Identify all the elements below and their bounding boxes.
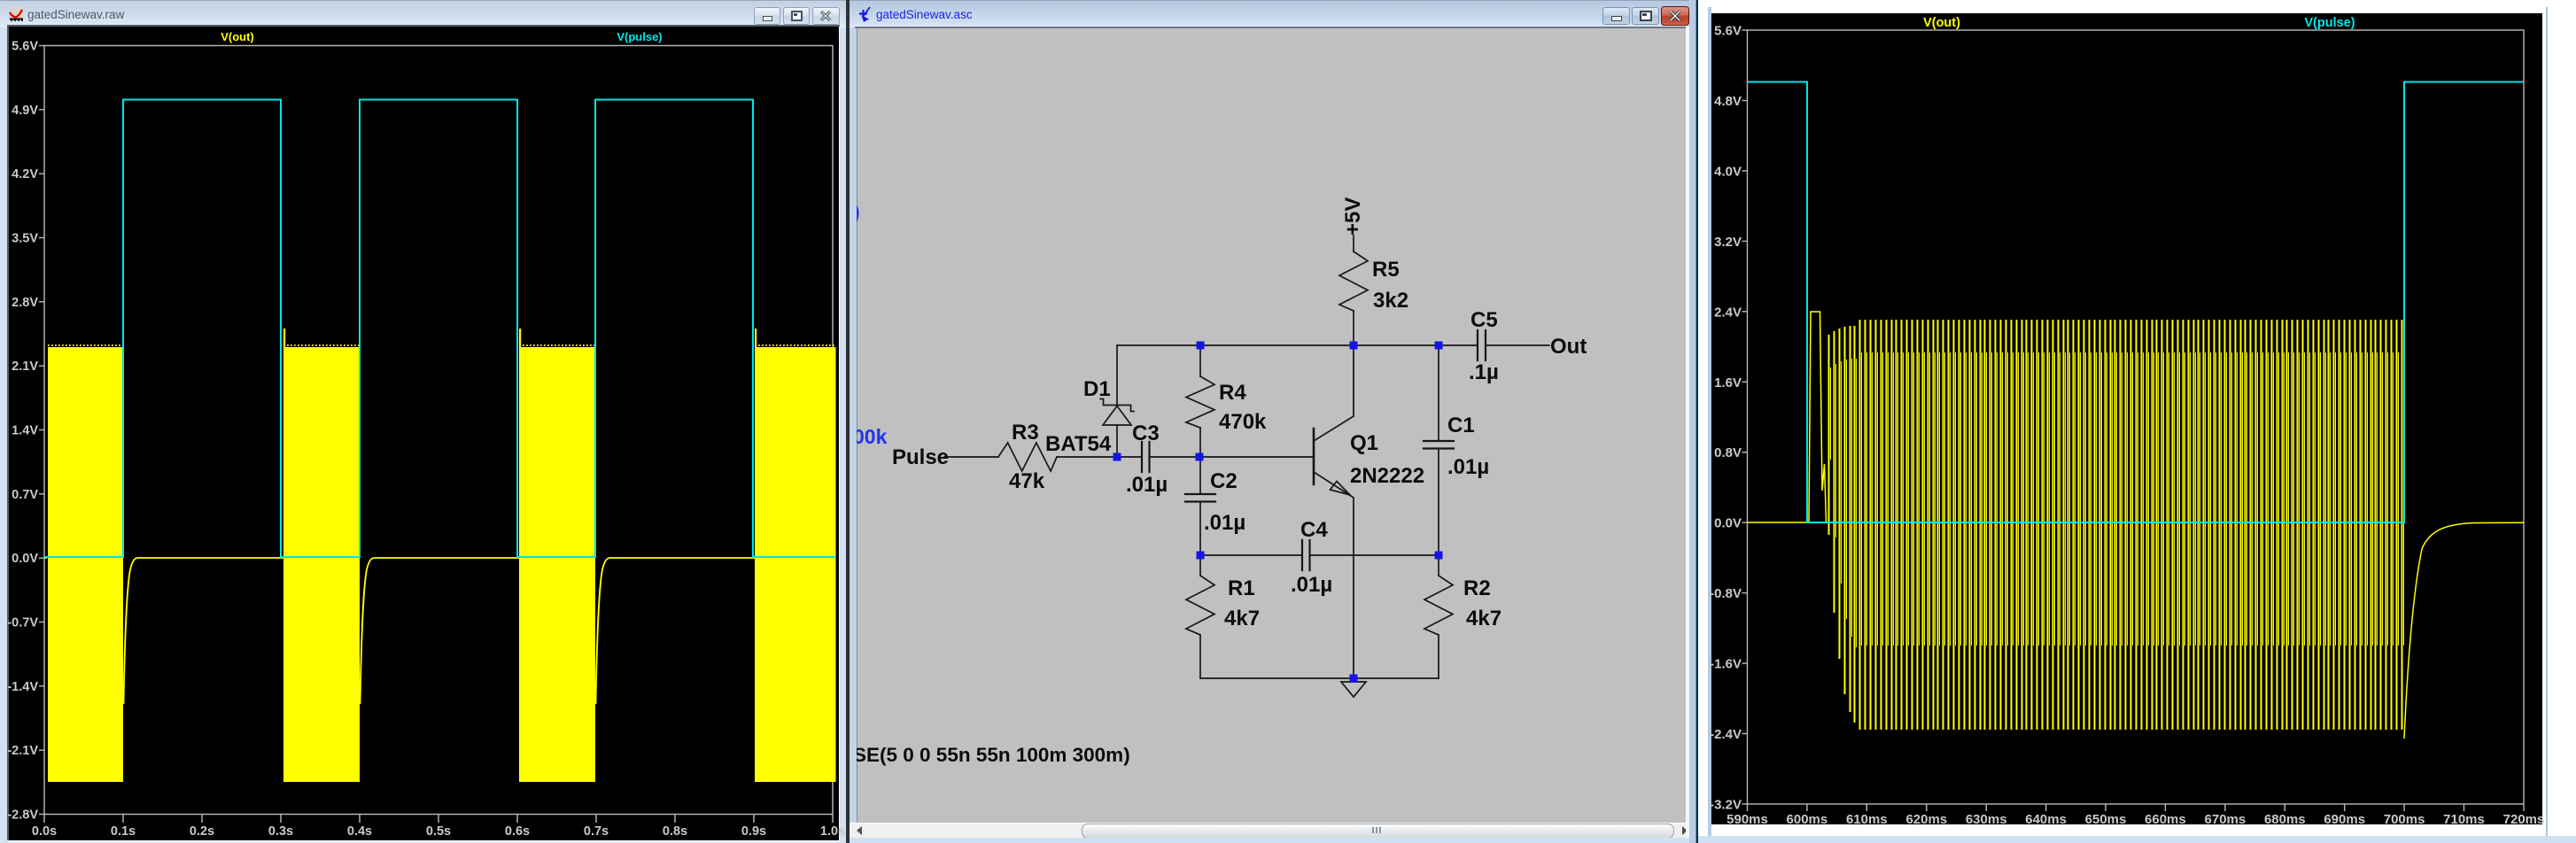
svg-text:R3: R3 — [1012, 421, 1039, 445]
svg-text:0.0V: 0.0V — [1714, 516, 1742, 531]
node Pulse input wire — [944, 456, 998, 458]
transistor Q1 collector — [1314, 345, 1354, 441]
titlebar middle window — [850, 0, 1696, 27]
resistor R2 — [1438, 555, 1439, 576]
ground symbol — [1341, 682, 1366, 697]
canvas sunken edge — [855, 27, 1696, 28]
svg-text:620ms: 620ms — [1905, 812, 1947, 827]
junction nodes (blue squares) — [1113, 342, 1443, 683]
scrollbar thumb grip — [1372, 827, 1374, 833]
titlebar left window — [0, 0, 848, 27]
svg-text:V(pulse): V(pulse) — [617, 30, 662, 43]
trace V(out) right: flat, startup bump, oscillation, decay — [1748, 312, 1827, 522]
svg-text:R5: R5 — [1372, 258, 1400, 282]
svg-text:-0.8V: -0.8V — [1710, 586, 1742, 601]
svg-text:47k: 47k — [1009, 469, 1045, 493]
minimize button (mid) — [1602, 7, 1630, 25]
window: gatedSinewav.asc (schematic) — [848, 0, 1698, 843]
svg-text:R2: R2 — [1463, 576, 1491, 600]
capacitor C2 — [1199, 457, 1201, 494]
wire C3 to base junction — [1150, 456, 1200, 458]
svg-text:4.9V: 4.9V — [12, 104, 38, 118]
wire R3 to junction — [1057, 456, 1142, 458]
svg-text:0.7V: 0.7V — [12, 488, 38, 502]
svg-text:.1µ: .1µ — [1469, 360, 1499, 384]
svg-text:0.3s: 0.3s — [268, 824, 293, 839]
wire C5 to Out — [1486, 344, 1549, 346]
svg-text:4k7: 4k7 — [1466, 607, 1501, 630]
svg-text:R4: R4 — [1219, 381, 1246, 405]
svg-text:-2.4V: -2.4V — [1710, 727, 1742, 742]
right waveform panel background — [1698, 0, 2576, 843]
svg-text:470k: 470k — [1219, 410, 1267, 434]
svg-text:V(out): V(out) — [1923, 16, 1960, 30]
resistor R4 — [1199, 345, 1201, 376]
svg-text:BAT54: BAT54 — [1045, 432, 1112, 456]
svg-text:-2.8V: -2.8V — [7, 808, 38, 823]
trace V(pulse) right — [1748, 82, 2525, 523]
svg-text:.01µ: .01µ — [1291, 573, 1332, 597]
svg-text:): ) — [857, 200, 860, 223]
window: gatedSinewav.raw (waveform viewer) — [0, 0, 848, 843]
svg-text:Out: Out — [1550, 335, 1587, 359]
svg-text:0.2s: 0.2s — [190, 824, 214, 839]
svg-text:.01µ: .01µ — [1204, 511, 1245, 535]
trace V(pulse) left — [44, 100, 835, 558]
component labels — [853, 197, 1587, 766]
minimize button — [754, 7, 780, 25]
svg-text:R1: R1 — [1228, 576, 1255, 600]
svg-text:680ms: 680ms — [2264, 812, 2306, 827]
left plot y-axis labels — [7, 40, 38, 823]
maximize button — [783, 7, 810, 25]
transistor Q1 base bar — [1313, 429, 1315, 484]
scrollbar thumb — [1082, 824, 1674, 839]
svg-text:4.2V: 4.2V — [12, 167, 38, 182]
left plot axis box — [44, 46, 833, 815]
bottom border — [850, 838, 1696, 843]
title text blue — [876, 8, 973, 21]
svg-text:4.8V: 4.8V — [1714, 94, 1742, 109]
right panel black area — [1711, 13, 2543, 824]
svg-text:720ms: 720ms — [2503, 812, 2545, 827]
svg-text:00k: 00k — [857, 425, 888, 448]
close button — [812, 7, 840, 25]
svg-text:D1: D1 — [1083, 377, 1111, 401]
svg-text:690ms: 690ms — [2324, 812, 2365, 827]
svg-text:0.6s: 0.6s — [505, 824, 530, 839]
svg-text:-2.1V: -2.1V — [7, 744, 38, 758]
svg-text:3.5V: 3.5V — [12, 232, 38, 246]
capacitor C5 — [1478, 330, 1486, 360]
svg-text:5.6V: 5.6V — [1714, 24, 1742, 39]
capacitor C4 — [1302, 540, 1310, 570]
black client area — [9, 27, 839, 840]
svg-text:610ms: 610ms — [1846, 812, 1888, 827]
svg-text:2.1V: 2.1V — [12, 360, 38, 374]
svg-text:0.0s: 0.0s — [32, 824, 57, 839]
left plot x-axis labels — [32, 824, 845, 839]
svg-text:Q1: Q1 — [1350, 431, 1378, 455]
blue directive fragments — [853, 200, 888, 448]
wire lower row left — [1200, 554, 1302, 556]
svg-text:C5: C5 — [1470, 308, 1498, 332]
resistor R5 — [1353, 236, 1354, 251]
trace V(out): startup spikes — [283, 329, 285, 347]
wire ground rail — [1200, 677, 1439, 679]
svg-text:-1.4V: -1.4V — [7, 680, 38, 694]
svg-text:C2: C2 — [1210, 469, 1238, 493]
right plot axis box — [1748, 30, 2525, 804]
svg-text:0.1s: 0.1s — [111, 824, 136, 839]
svg-text:C4: C4 — [1300, 518, 1328, 542]
svg-text:0.0V: 0.0V — [12, 552, 38, 566]
svg-text:3.2V: 3.2V — [1714, 235, 1742, 250]
svg-text:SE(5 0 0 55n 55n 100m 300m): SE(5 0 0 55n 55n 100m 300m) — [857, 744, 1130, 766]
gray schematic canvas — [857, 28, 1687, 823]
svg-text:Pulse: Pulse — [892, 445, 949, 469]
svg-text:0.8V: 0.8V — [1714, 445, 1742, 460]
wire top rail — [1117, 344, 1478, 346]
svg-text:V(out): V(out) — [221, 30, 254, 43]
dark outer border right of schematic window — [1696, 0, 1698, 843]
svg-text:700ms: 700ms — [2384, 812, 2425, 827]
trace V(out): oscillation blocks — [48, 347, 123, 782]
close button red (mid) — [1661, 6, 1689, 26]
svg-text:590ms: 590ms — [1726, 812, 1768, 827]
resistor R1 — [1199, 555, 1201, 576]
right plot y-axis labels — [1710, 24, 1742, 813]
titlebar icon (blue schematic probe) — [859, 6, 877, 24]
maximize button (mid) — [1632, 7, 1659, 25]
svg-text:C1: C1 — [1447, 414, 1475, 437]
trace V(out): settle curves at 0V — [124, 558, 284, 704]
wire base junction to Q1 base — [1199, 456, 1314, 458]
wire lower row right — [1310, 554, 1439, 556]
svg-text:0.7s: 0.7s — [584, 824, 609, 839]
svg-text:670ms: 670ms — [2205, 812, 2246, 827]
wire D1 cathode to top rail — [1116, 345, 1118, 406]
dark outer border left — [848, 0, 850, 843]
svg-text:660ms: 660ms — [2145, 812, 2186, 827]
svg-text:V(pulse): V(pulse) — [2304, 16, 2355, 30]
svg-text:5.6V: 5.6V — [12, 40, 38, 54]
diode D1 BAT54 body — [1103, 406, 1131, 426]
title text — [27, 8, 124, 21]
svg-text:+5V: +5V — [1341, 197, 1365, 236]
right border stack — [1686, 27, 1689, 838]
capacitor C3 — [1142, 442, 1150, 472]
capacitor C1 — [1438, 345, 1439, 441]
bottom strip below windows — [1698, 836, 2576, 843]
svg-text:600ms: 600ms — [1787, 812, 1828, 827]
svg-text:.01µ: .01µ — [1126, 473, 1168, 497]
svg-text:-3.2V: -3.2V — [1710, 798, 1742, 813]
svg-text:2.8V: 2.8V — [12, 296, 38, 310]
svg-text:.01µ: .01µ — [1447, 455, 1489, 479]
titlebar icon (red waveform) — [9, 7, 24, 22]
svg-text:0.5s: 0.5s — [426, 824, 451, 839]
svg-text:650ms: 650ms — [2085, 812, 2127, 827]
wire D1 anode to junction — [1116, 425, 1118, 457]
svg-text:C3: C3 — [1132, 421, 1160, 445]
scrollbar left arrow — [855, 826, 865, 835]
svg-text:0.4s: 0.4s — [347, 824, 372, 839]
svg-text:0.9s: 0.9s — [741, 824, 766, 839]
right plot x-axis labels — [1726, 812, 2544, 827]
svg-text:0.8s: 0.8s — [663, 824, 687, 839]
svg-text:-0.7V: -0.7V — [7, 616, 38, 630]
svg-text:-1.6V: -1.6V — [1710, 657, 1742, 672]
svg-text:1.6V: 1.6V — [1714, 375, 1742, 391]
svg-text:1.4V: 1.4V — [12, 424, 38, 438]
svg-text:1.0s: 1.0s — [820, 824, 845, 839]
svg-text:630ms: 630ms — [1966, 812, 2007, 827]
scrollbar right arrow — [1679, 826, 1689, 835]
right panel left blue strip — [1708, 7, 1711, 836]
svg-text:3k2: 3k2 — [1373, 289, 1408, 313]
svg-text:4k7: 4k7 — [1224, 607, 1260, 630]
svg-text:640ms: 640ms — [2025, 812, 2067, 827]
resistor R3 — [998, 443, 1057, 471]
svg-text:2.4V: 2.4V — [1714, 305, 1742, 320]
svg-text:2N2222: 2N2222 — [1350, 464, 1424, 488]
diode D1 schottky cathode bar — [1100, 399, 1134, 412]
transistor Q1 emitter with arrow — [1314, 472, 1354, 678]
svg-text:4.0V: 4.0V — [1714, 164, 1742, 179]
client sunken frame — [7, 25, 840, 840]
right panel right blue line — [2546, 7, 2548, 836]
svg-text:710ms: 710ms — [2443, 812, 2485, 827]
scrollbar horizontal — [850, 823, 1696, 824]
